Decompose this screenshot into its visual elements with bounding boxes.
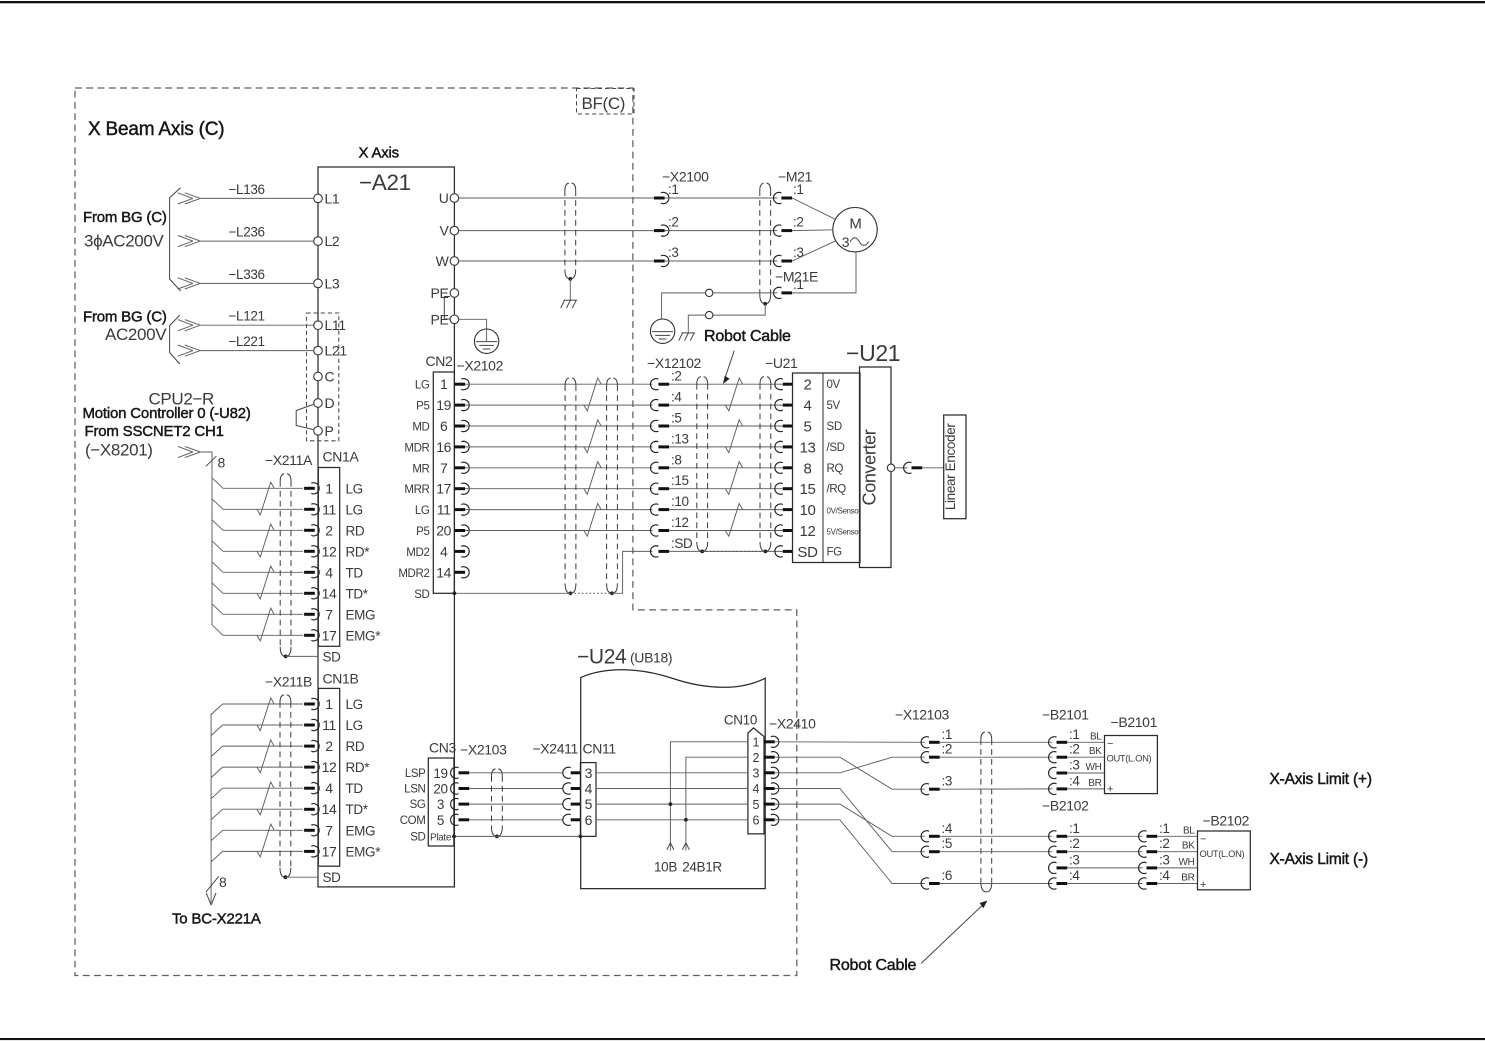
connector X211A pin 17	[304, 634, 315, 637]
connector B2102b pin 2	[1139, 846, 1147, 857]
bus CN1B outgoing	[210, 714, 212, 904]
converter box	[860, 367, 892, 568]
svg-text:OUT(L.ON): OUT(L.ON)	[1200, 848, 1245, 859]
svg-text:6: 6	[752, 814, 759, 828]
svg-text:P: P	[325, 423, 334, 439]
svg-text:+: +	[1107, 784, 1113, 796]
svg-text:11: 11	[437, 502, 451, 518]
wire X2410-3 to X12103-2	[775, 757, 925, 773]
svg-text:L2: L2	[325, 233, 340, 249]
svg-text:EMG: EMG	[346, 607, 376, 622]
bevel CN1A row 17	[212, 625, 223, 636]
wire X12102 :15 to U21	[669, 488, 783, 490]
connector X2103 pin 3	[451, 798, 459, 809]
connector U21 pin SD	[775, 546, 783, 557]
wire CN1B pin 14	[223, 808, 303, 810]
leader Robot Cable #1	[724, 351, 734, 381]
svg-text::12: :12	[671, 515, 689, 530]
arrow source -L236	[185, 236, 201, 242]
svg-text:W: W	[436, 253, 450, 269]
shield drain to CN1B SD	[285, 876, 318, 878]
svg-text:19: 19	[433, 766, 447, 781]
svg-text::4: :4	[1069, 868, 1080, 883]
wire B2102 link 4	[1067, 883, 1142, 885]
connector M21 pin 3	[773, 255, 781, 266]
wire B2102 WH	[1157, 867, 1197, 869]
svg-text::2: :2	[1069, 836, 1080, 851]
terminal P of A21	[314, 427, 323, 436]
wire B2101 WH	[1067, 772, 1104, 774]
connector X2410 pin 5	[764, 803, 775, 806]
connector X12102 pin 4	[650, 400, 658, 411]
wire CN2 SD row	[454, 592, 570, 594]
motor M21 circle	[833, 208, 877, 252]
connector X12103 pin 3	[921, 784, 929, 795]
svg-text:P5: P5	[416, 526, 429, 538]
svg-text:EMG*: EMG*	[346, 628, 382, 643]
shield motor cable segment 1	[564, 190, 566, 269]
svg-text:17: 17	[322, 627, 337, 643]
svg-text:SD: SD	[827, 421, 842, 433]
svg-text:TD: TD	[346, 565, 364, 580]
wire CN1B pin 12	[223, 766, 303, 768]
svg-text::3: :3	[942, 774, 953, 789]
connector X2410 pin 3	[764, 771, 775, 774]
wire X2410-1 to X12103-1	[775, 741, 925, 744]
wire SSCNET to CN1A bus	[200, 452, 212, 478]
connector B2102b pin 4	[1139, 878, 1147, 889]
connector X211B pin 12	[304, 766, 315, 769]
svg-text:6: 6	[585, 812, 593, 828]
svg-text:4: 4	[804, 398, 812, 415]
wire X12102 :2 to U21	[669, 383, 783, 385]
svg-text:12: 12	[322, 543, 337, 559]
svg-text:CN1B: CN1B	[323, 671, 359, 687]
wire B2101 BR	[1067, 788, 1104, 790]
connector X12102 pin 10	[650, 504, 658, 515]
arrow ref 10B	[667, 843, 671, 850]
ground earth symbol motor	[650, 319, 674, 343]
ground chassis near motor	[682, 332, 696, 334]
svg-text:X-Axis Limit (-): X-Axis Limit (-)	[1270, 851, 1368, 868]
enclosure X Beam Axis (C) dashed boundary	[75, 88, 797, 976]
svg-text::1: :1	[1159, 821, 1170, 836]
connector B2102a pin 3	[1049, 862, 1057, 873]
connector U21 pin 13	[775, 441, 783, 452]
slash 8-core mark CN1A	[206, 456, 217, 466]
twist mark CN1A pair 3	[257, 566, 274, 599]
connector X211A pin 11	[304, 508, 315, 511]
svg-text::3: :3	[1159, 852, 1170, 867]
svg-text:−B2102: −B2102	[1042, 798, 1089, 814]
connector U21 pin 10	[775, 504, 783, 515]
bottom border rule	[0, 1038, 1485, 1040]
wire W to X2100	[459, 260, 654, 262]
connector X211B pin 1	[304, 703, 315, 706]
connector X2102 pin 17	[454, 487, 465, 490]
svg-text:13: 13	[800, 439, 816, 456]
connector U21 pin 15	[775, 483, 783, 494]
connector X211A pin 14	[304, 592, 315, 595]
svg-text:LG: LG	[346, 718, 363, 733]
shield drain to CN1A SD	[286, 655, 319, 657]
connector U21 pin 12	[775, 525, 783, 536]
bevel CN1B row 1	[211, 704, 223, 715]
twist mark CN1A pair 4	[257, 608, 274, 641]
bevel CN1B row 14	[211, 809, 223, 820]
wire terminal1 to M21E	[713, 292, 777, 294]
svg-text:11: 11	[322, 501, 336, 517]
wire CN1A pin 1	[223, 487, 303, 489]
connector B2102a pin 4	[1049, 878, 1057, 889]
svg-text:2: 2	[325, 738, 333, 754]
svg-text:LSN: LSN	[404, 784, 425, 796]
connector B2102a pin 1	[1049, 831, 1057, 842]
svg-text:4: 4	[752, 782, 759, 796]
svg-text:V: V	[440, 223, 450, 239]
twist mark X12102 pair 4	[725, 503, 742, 536]
wire CN3 COM to X2411	[469, 819, 563, 821]
wire X12102 :SD to U21	[669, 550, 783, 552]
wire B2102 BR	[1157, 883, 1197, 885]
connector X211B pin 2	[304, 745, 315, 748]
terminal L3 of A21	[314, 279, 323, 288]
svg-text:BL: BL	[1183, 825, 1195, 836]
svg-text:L21: L21	[325, 343, 348, 359]
svg-text:LG: LG	[346, 697, 363, 712]
svg-text:5: 5	[585, 796, 593, 812]
svg-text:SD: SD	[414, 589, 429, 601]
connector X2103 pin 5	[451, 814, 459, 825]
svg-text:/RQ: /RQ	[827, 484, 847, 496]
shield continuity dotted X12102	[702, 550, 765, 552]
wire CN1A pin 12	[223, 550, 303, 552]
svg-text:+: +	[1200, 879, 1206, 891]
svg-text:SD: SD	[323, 650, 342, 665]
wire V to X2100	[459, 230, 654, 232]
wire X12103-6 to B2102-4	[940, 883, 1053, 885]
limit switch unit U24 box	[581, 670, 766, 889]
svg-text:FG: FG	[827, 546, 843, 558]
connector U21 pin 5	[775, 420, 783, 431]
wire X2410-5 to X12103-4	[775, 804, 925, 836]
svg-text:8: 8	[219, 874, 227, 890]
connector M21 pin 2	[773, 225, 781, 236]
twist mark X12102 pair 2	[725, 420, 742, 453]
svg-text:LG: LG	[415, 380, 430, 392]
svg-text:EMG*: EMG*	[346, 844, 382, 859]
wire -L136	[200, 197, 313, 199]
wire B2101 BL	[1067, 741, 1104, 743]
svg-text:(UB18): (UB18)	[630, 650, 672, 666]
connector X211A pin 2	[304, 529, 315, 532]
wire CN1B pin 7	[223, 829, 303, 831]
wire -L336	[200, 282, 313, 284]
svg-text:5V: 5V	[827, 400, 841, 412]
connector CN1B box	[318, 688, 339, 866]
arrow source -L121	[185, 320, 201, 326]
terminal L11 of A21	[314, 321, 323, 330]
svg-text:−A21: −A21	[359, 170, 411, 195]
wire CN2 P5 to X12102	[465, 530, 652, 532]
connector B2101 pin 2	[1049, 752, 1057, 763]
wire X12102 :5 to U21	[669, 425, 783, 427]
wire X12102 :12 to U21	[669, 530, 783, 532]
arrow source -L136	[185, 193, 201, 199]
twist mark CN1B pair 2	[257, 740, 274, 773]
svg-text:From SSCNET2 CH1: From SSCNET2 CH1	[85, 423, 224, 440]
connector X12103 pin 5	[921, 846, 929, 857]
twist mark CN2 pair 4	[584, 503, 601, 536]
wire B2102 BK	[1157, 851, 1197, 853]
connector X211B pin 17	[304, 850, 315, 853]
svg-text:Linear Encoder: Linear Encoder	[943, 423, 958, 511]
connector X12102 pin SD	[650, 546, 658, 557]
wire X12103-1 to B2101-1	[940, 741, 1053, 743]
bevel CN1A row 12	[212, 541, 223, 552]
connector X2102 pin 4	[454, 550, 465, 553]
connector B2101 pin 1	[1049, 737, 1057, 748]
svg-text::5: :5	[671, 411, 682, 426]
arrow source -L336	[185, 278, 201, 284]
arrow SSCNET input	[185, 446, 201, 452]
svg-text:From BG (C): From BG (C)	[83, 309, 167, 326]
wire B2102 link 2	[1067, 851, 1142, 853]
wire M21 pin3 to motor	[792, 241, 836, 261]
svg-text:C: C	[325, 369, 335, 385]
svg-text:11: 11	[322, 717, 336, 733]
svg-text:BK: BK	[1182, 841, 1195, 852]
shield continuity dotted CN2	[571, 592, 613, 594]
connector X2410 pin 1	[764, 740, 775, 743]
terminal L2 of A21	[314, 237, 323, 246]
svg-text:−: −	[1200, 834, 1206, 846]
svg-text::1: :1	[793, 182, 804, 197]
svg-text:LG: LG	[346, 481, 363, 496]
svg-text:2: 2	[804, 377, 812, 394]
motor sine squiggle	[850, 238, 869, 246]
shield cable X2102 segment 1	[564, 385, 566, 584]
wire CN2 LG to X12102	[465, 383, 652, 385]
bracket 3-phase source	[170, 188, 181, 291]
svg-text:Robot Cable: Robot Cable	[830, 957, 917, 974]
svg-text:RD: RD	[346, 523, 365, 538]
svg-text:L3: L3	[325, 275, 340, 291]
connector CN2 box	[433, 372, 454, 593]
twist mark CN1A pair 2	[257, 524, 274, 557]
svg-text::2: :2	[1069, 742, 1080, 757]
wire X2410-2 to X12103-3	[775, 757, 925, 789]
svg-text:−L136: −L136	[229, 182, 265, 197]
bevel CN1B row 7	[211, 830, 223, 841]
svg-text:CN11: CN11	[583, 741, 617, 757]
converter output terminal	[887, 464, 894, 471]
wire B2101 BK	[1067, 756, 1104, 758]
connector U21 pin 2	[775, 379, 783, 390]
svg-text:CN2: CN2	[426, 353, 454, 369]
wire CN1A pin 2	[223, 529, 303, 531]
svg-text:4: 4	[325, 564, 333, 580]
svg-text::6: :6	[942, 868, 953, 883]
wire X2100 to M21 pin 1	[665, 197, 777, 199]
wire CN1A pin 14	[223, 592, 303, 594]
terminal W of A21	[450, 257, 459, 266]
connector X12102 pin 2	[650, 379, 658, 390]
wire CN2 LG to X12102	[465, 509, 652, 511]
twist mark CN1A pair 1	[257, 482, 274, 515]
wire X12102 :8 to U21	[669, 467, 783, 469]
svg-text:8: 8	[804, 460, 812, 477]
svg-text:Converter: Converter	[860, 429, 880, 505]
svg-text:4: 4	[440, 543, 448, 559]
svg-text:−: −	[1107, 738, 1113, 750]
wire to linear encoder	[922, 467, 944, 469]
bevel CN1A row 2	[212, 520, 223, 531]
svg-text:MDR: MDR	[404, 442, 429, 454]
svg-text:−L221: −L221	[229, 334, 265, 349]
wire CN3 LSN to X2411	[469, 788, 563, 790]
wire B2102 BL	[1157, 835, 1197, 837]
svg-text:16: 16	[436, 439, 451, 455]
bevel CN1A row 4	[212, 562, 223, 573]
svg-text:0V/Sensor: 0V/Sensor	[827, 507, 862, 516]
wire U24 internal CN10-1	[670, 742, 748, 851]
svg-text:−X2411: −X2411	[532, 741, 578, 757]
servo amplifier A21 box	[318, 167, 454, 887]
svg-text:1: 1	[325, 480, 333, 496]
svg-text:COM: COM	[400, 815, 426, 827]
svg-text:14: 14	[322, 585, 337, 601]
svg-text:TD*: TD*	[346, 802, 369, 817]
bevel CN1A row 7	[212, 604, 223, 615]
svg-text::10: :10	[671, 494, 689, 509]
svg-text:12: 12	[322, 759, 337, 775]
svg-text:L1: L1	[325, 190, 340, 206]
wire CN1A pin 4	[223, 571, 303, 573]
wire CN2 MDR to X12102	[465, 446, 652, 448]
wire terminal1 to earth	[662, 293, 706, 326]
svg-text:MRR: MRR	[404, 484, 429, 496]
svg-text::2: :2	[1159, 836, 1170, 851]
dashed box around L11..P terminals	[307, 313, 339, 441]
svg-text:14: 14	[436, 564, 451, 580]
svg-text:7: 7	[440, 460, 448, 476]
ground earth symbol near PE	[474, 329, 498, 353]
svg-text:19: 19	[436, 397, 451, 413]
wire X2410-6 to X12103-6	[775, 820, 925, 884]
svg-text:−X12103: −X12103	[895, 707, 950, 723]
svg-text:OUT(L.ON): OUT(L.ON)	[1107, 753, 1152, 764]
wire M21E to motor	[792, 252, 856, 293]
wire CN2 MRR to X12102	[465, 488, 652, 490]
svg-text::1: :1	[793, 277, 804, 292]
connector X211A pin 4	[304, 571, 315, 574]
shield robot cable 2	[980, 739, 982, 882]
terminal U of A21	[450, 194, 459, 203]
connector X12103 pin 6	[921, 878, 929, 889]
wire X12102 :13 to U21	[669, 446, 783, 448]
wire -L221	[200, 350, 313, 352]
svg-text:/SD: /SD	[827, 442, 845, 454]
wire B2102 link 1	[1067, 835, 1142, 837]
connector X211B pin 7	[304, 829, 315, 832]
svg-text:L11: L11	[325, 317, 347, 333]
wire X12103-3 to B2101-4	[940, 788, 1053, 790]
wire U to X2100	[459, 197, 654, 199]
svg-text:−X2102: −X2102	[457, 358, 504, 374]
connector X12103 pin 1	[921, 737, 929, 748]
svg-text:17: 17	[436, 481, 451, 497]
wire X2410-4 to X12103-5	[775, 789, 925, 852]
connector X2410 pin 6	[764, 818, 775, 821]
connector X211A pin 12	[304, 550, 315, 553]
connector X12103 pin 2	[921, 752, 929, 763]
svg-text:MD: MD	[412, 422, 429, 434]
arrow source -L221	[185, 345, 201, 351]
shield cable X2103	[491, 776, 493, 827]
svg-text::5: :5	[942, 836, 953, 851]
twist mark CN1B pair 4	[257, 824, 274, 857]
top border rule	[0, 1, 1485, 3]
svg-text:−U21: −U21	[846, 340, 900, 366]
svg-text:CN10: CN10	[724, 713, 757, 728]
wire CN3 LSP to X2411	[469, 772, 563, 774]
svg-text::13: :13	[671, 431, 689, 446]
svg-text:RQ: RQ	[827, 463, 844, 475]
shield cable X211B	[279, 702, 281, 868]
svg-text:−X2410: −X2410	[769, 716, 816, 732]
svg-text:M: M	[849, 216, 861, 233]
svg-text:MDR2: MDR2	[398, 568, 429, 580]
svg-text:BF(C): BF(C)	[582, 94, 626, 113]
leader Robot Cable #2	[921, 904, 984, 964]
svg-text:−U24: −U24	[577, 646, 627, 669]
shield cable X2102 segment 2	[606, 385, 608, 584]
svg-text::3: :3	[1069, 852, 1080, 867]
terminal PE of A21	[450, 289, 459, 298]
svg-text:WH: WH	[1179, 857, 1195, 868]
svg-text:CN3: CN3	[429, 740, 457, 756]
wire M21 pin1 to motor	[792, 198, 836, 219]
svg-text:3: 3	[752, 767, 759, 781]
svg-text:12: 12	[800, 523, 816, 540]
wire U24 internal CN10-2	[686, 757, 748, 850]
twist mark X12102 pair 1	[725, 378, 742, 411]
svg-text:Motion Controller 0 (-U82): Motion Controller 0 (-U82)	[83, 405, 251, 422]
terminal D of A21	[314, 399, 323, 408]
connector B2102b pin 1	[1139, 831, 1147, 842]
svg-text:PE: PE	[431, 285, 449, 301]
svg-text:LG: LG	[415, 505, 430, 517]
svg-text:2: 2	[752, 751, 759, 765]
svg-text:1: 1	[752, 736, 759, 750]
wire CN1B pin 17	[223, 850, 303, 852]
svg-text:RD*: RD*	[346, 544, 371, 559]
connector X2102 pin 16	[454, 445, 465, 448]
svg-text::SD: :SD	[671, 536, 693, 551]
twist mark CN1B pair 1	[257, 698, 274, 731]
wire CN2 P5 to X12102	[465, 404, 652, 406]
wire CN1A pin 11	[223, 508, 303, 510]
svg-text:SD: SD	[323, 870, 342, 885]
connector B2101 pin 3	[1049, 767, 1057, 778]
shield motor cable segment 2	[759, 190, 761, 294]
svg-text::3: :3	[1069, 758, 1080, 773]
connector X12102 pin 13	[650, 441, 658, 452]
terminal V of A21	[450, 226, 459, 235]
shield cable X12102 segment 1	[696, 384, 698, 542]
svg-text::1: :1	[1069, 821, 1080, 836]
